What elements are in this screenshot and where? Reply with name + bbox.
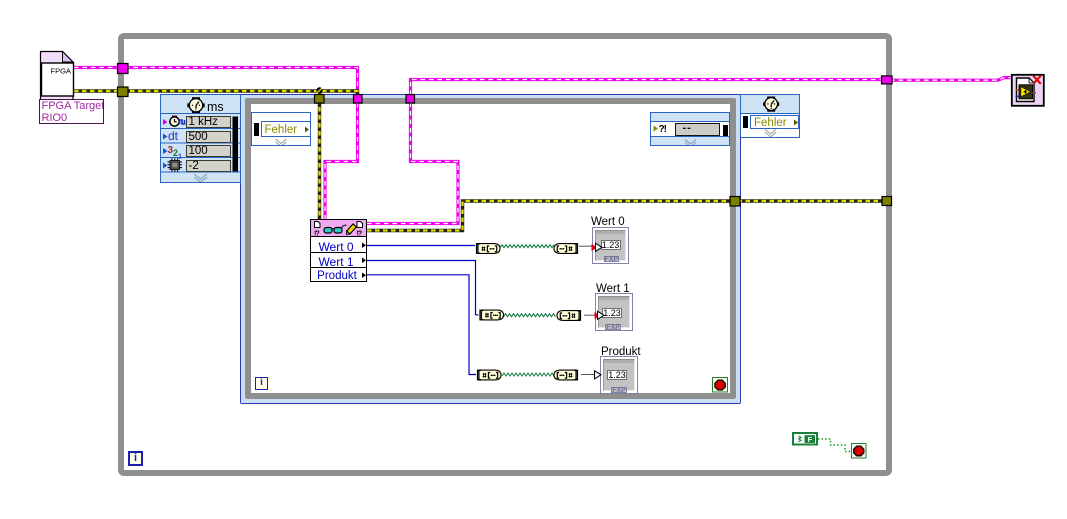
indicator Wert 1 bbox=[595, 293, 633, 331]
tunnel magenta on outer right border bbox=[882, 76, 893, 84]
timed loop left data node (Fehler) bbox=[251, 112, 311, 146]
tunnel error on timed loop right border bbox=[730, 197, 740, 207]
wire FXP short gray row3 bbox=[581, 374, 594, 376]
glasses + pencil bbox=[342, 225, 347, 228]
tunnel error on timed loop top border bbox=[315, 95, 325, 104]
value field dt 500 bbox=[186, 131, 232, 143]
stop terminal of while loop bbox=[852, 444, 867, 459]
junction dot on error wire bbox=[316, 87, 322, 93]
tunnel magenta on outer left border bbox=[118, 64, 129, 74]
svg-text:dt: dt bbox=[168, 129, 179, 143]
wire FXP blue Wert0 row bbox=[367, 245, 475, 247]
FPGA target label RIO0 bbox=[39, 99, 104, 124]
input triangle row1 bbox=[596, 243, 603, 251]
clock icon ms bbox=[187, 97, 204, 113]
value field 1 kHz bbox=[186, 116, 232, 128]
indicator Wert 0 bbox=[592, 227, 629, 264]
iteration terminal i (while loop) bbox=[128, 451, 143, 466]
node Number-to-BooleanArray row3 bbox=[478, 370, 501, 380]
svg-text:FPGA: FPGA bbox=[51, 66, 71, 75]
wire error branch down through tunnel to RW node bbox=[318, 91, 321, 219]
iteration terminal i (timed loop) bbox=[255, 377, 268, 390]
boolean False constant bbox=[793, 433, 817, 445]
node BooleanArray-to-Number row2 bbox=[557, 311, 580, 321]
wire boolean dotted F-const to stop terminal bbox=[818, 439, 851, 452]
tunnel error on outer right border bbox=[882, 197, 892, 206]
row arrows bbox=[163, 119, 168, 125]
timed loop border outer blue line bbox=[240, 94, 741, 404]
indicator Wert 1 label bbox=[596, 283, 630, 295]
stopwatch icon row1 bbox=[170, 116, 185, 127]
svg-text:1: 1 bbox=[178, 154, 182, 161]
value field 100 bbox=[186, 145, 232, 157]
wire magenta inside timed loop (left branch down to RW node) bbox=[325, 103, 358, 219]
node Number-to-BooleanArray row1 bbox=[477, 244, 500, 254]
wire FXP short gray row1 bbox=[579, 245, 592, 247]
node Number-to-BooleanArray row2 bbox=[480, 310, 503, 320]
input triangle row3 (no coercion) bbox=[595, 371, 602, 379]
arrows overlay bbox=[585, 235, 610, 385]
chip icon row4 bbox=[168, 158, 183, 172]
stop terminal of timed loop bbox=[713, 378, 728, 393]
while loop (outer) border bbox=[118, 33, 892, 476]
wire FXP blue Produkt row bbox=[367, 275, 476, 375]
value field -2 bbox=[186, 160, 232, 172]
svg-text:!?: !? bbox=[314, 231, 319, 238]
FPGA target icon bbox=[36, 48, 116, 128]
tunnel magenta 1 on timed loop top border bbox=[354, 95, 363, 104]
coercion arrow red row1 bbox=[592, 244, 598, 251]
wire magenta from RW node out to right tunnel bbox=[367, 103, 458, 224]
page glyph left bbox=[315, 222, 321, 228]
node BooleanArray-to-Number row3 bbox=[554, 370, 577, 380]
row output arrows bbox=[362, 243, 366, 249]
timed loop border gray band bbox=[245, 98, 736, 399]
wire FXP blue Wert1 row bbox=[367, 261, 479, 315]
page glyph right bbox=[357, 222, 363, 228]
wire boolean-array zigzag row3 bbox=[502, 373, 554, 376]
timed loop input node (ms clock config) bbox=[160, 94, 241, 183]
coercion arrow red row2 bbox=[595, 312, 601, 319]
input triangle row2 bbox=[598, 311, 605, 319]
svg-text:F: F bbox=[808, 435, 813, 444]
wire FPGA reference (magenta) from FPGA target to timed loop tunnel bbox=[74, 64, 1012, 459]
wire boolean-array zigzag row1 bbox=[500, 245, 554, 248]
close FPGA reference icon bbox=[1008, 71, 1048, 111]
timed loop border light strip bbox=[241, 95, 740, 403]
wire magenta out of timed loop up and right to outer border bbox=[411, 80, 887, 96]
wire magenta from outer border to close-FPGA icon bbox=[890, 78, 1012, 81]
wire FXP short gray row2 bbox=[584, 314, 595, 316]
wire boolean-array zigzag row2 bbox=[504, 314, 556, 317]
indicator Produkt label bbox=[601, 346, 641, 358]
tunnel magenta 2 on timed loop top border bbox=[406, 95, 415, 104]
timed loop right data node (?! --) bbox=[650, 112, 730, 146]
black scroll bar bbox=[233, 117, 239, 172]
chevron bbox=[194, 174, 207, 179]
wire error cluster (olive) FPGA target to junction and corner bbox=[74, 91, 358, 95]
FPGA Read/Write Control node bbox=[310, 219, 367, 282]
indicator Wert 0 label bbox=[591, 216, 625, 228]
tunnel error on outer left border bbox=[118, 87, 129, 97]
svg-text:!?: !? bbox=[357, 231, 362, 238]
timed loop output node (clock + Fehler) bbox=[740, 94, 800, 138]
wire error from RW node right side to outer right border bbox=[367, 201, 888, 231]
node BooleanArray-to-Number row1 bbox=[554, 244, 577, 254]
row separators bbox=[311, 252, 366, 254]
indicator Produkt bbox=[600, 356, 638, 394]
